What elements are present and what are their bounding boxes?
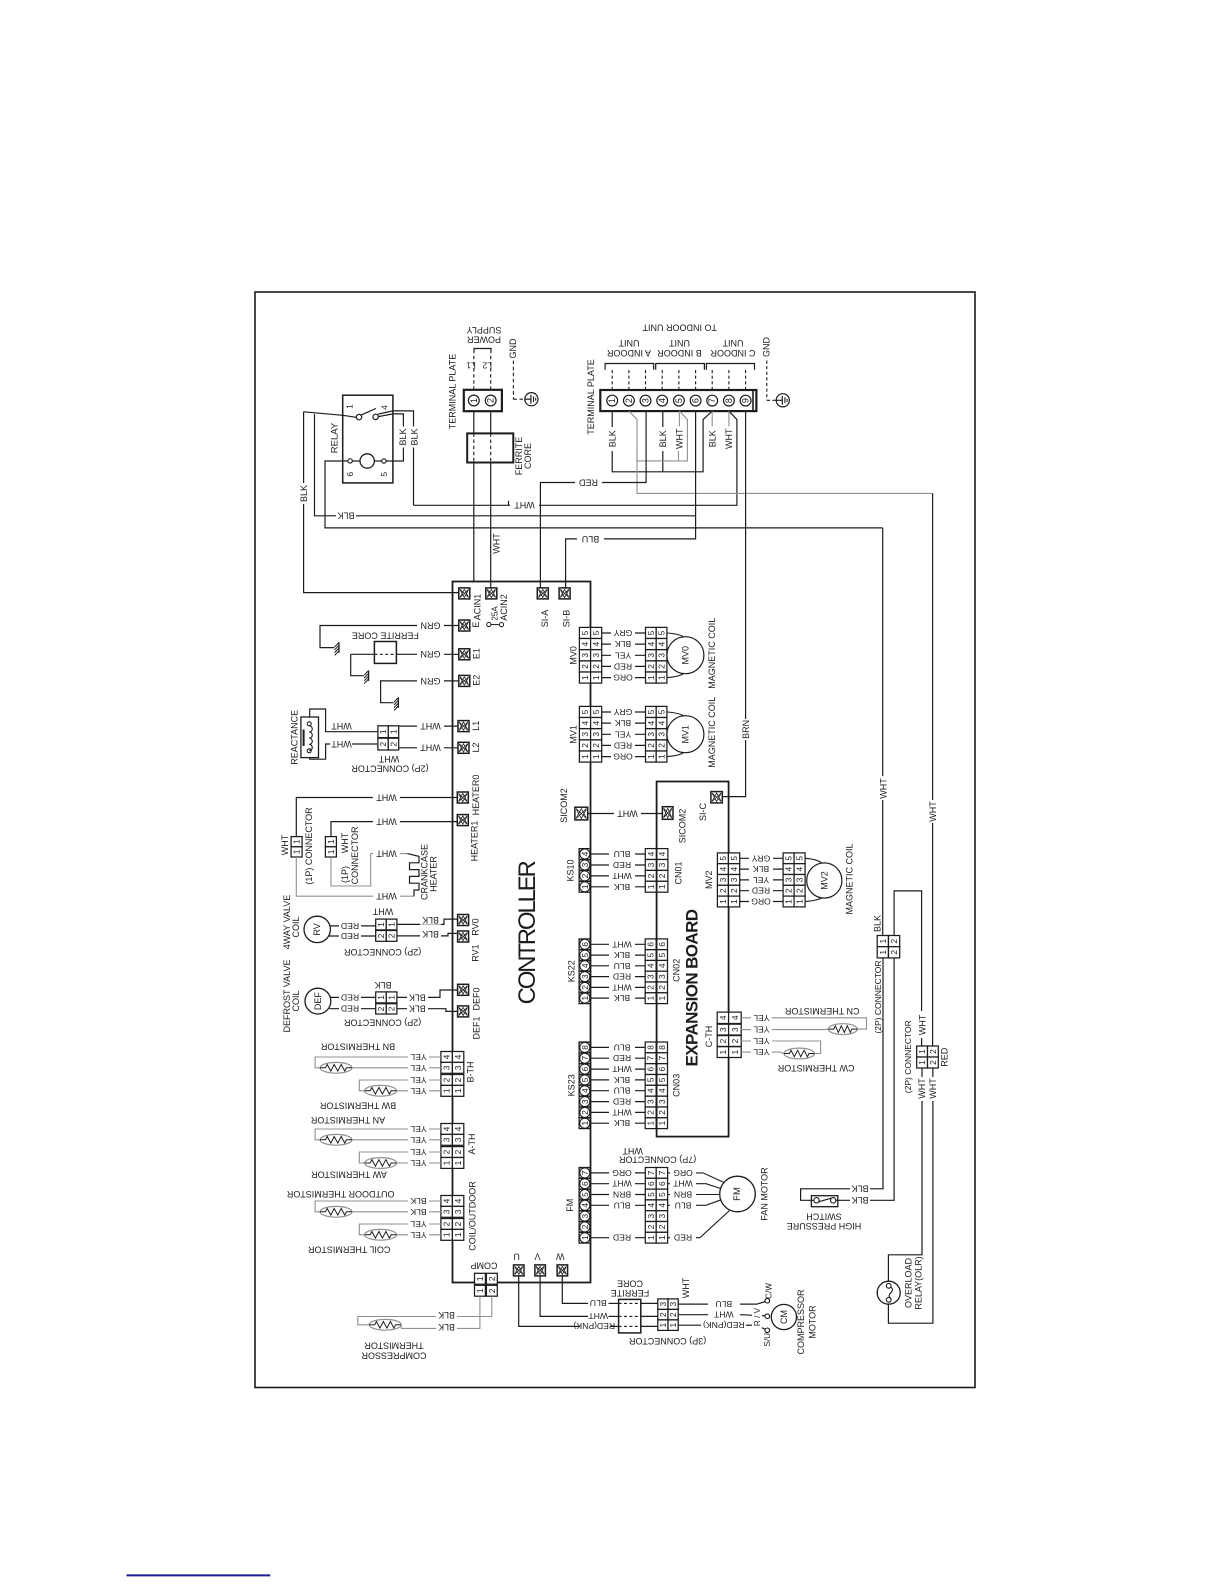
svg-text:3: 3: [442, 1137, 452, 1142]
connector DEF1: [458, 1006, 469, 1017]
svg-text:RED: RED: [613, 1053, 631, 1063]
svg-text:(1P): (1P): [340, 866, 350, 883]
svg-text:5: 5: [729, 856, 739, 861]
2P connector (DEF): [376, 992, 387, 1003]
relay switch blade: [361, 409, 376, 415]
svg-text:3: 3: [453, 1137, 463, 1142]
svg-text:BLK: BLK: [851, 1184, 868, 1194]
ground symbol E2: [397, 698, 399, 708]
svg-text:(1P) CONNECTOR: (1P) CONNECTOR: [304, 807, 314, 885]
svg-text:3: 3: [657, 862, 667, 867]
svg-text:4: 4: [580, 641, 590, 646]
svg-text:BLK: BLK: [410, 1196, 427, 1206]
svg-text:AN THERMISTOR: AN THERMISTOR: [310, 1115, 385, 1125]
svg-text:9: 9: [741, 398, 751, 403]
svg-text:UNIT: UNIT: [722, 338, 743, 348]
wire BLK 2P to DEF0: [397, 990, 458, 997]
connector HEATER1: [457, 815, 468, 826]
svg-text:3: 3: [795, 877, 805, 882]
svg-text:UNIT: UNIT: [618, 338, 639, 348]
svg-text:BLK: BLK: [337, 511, 354, 521]
svg-text:4: 4: [657, 851, 667, 856]
relay coil: [360, 454, 374, 468]
svg-text:W: W: [556, 1252, 565, 1262]
svg-text:POWER: POWER: [467, 335, 502, 345]
svg-text:2: 2: [486, 398, 496, 403]
wire BRN terminal9 to SI-C: [722, 411, 745, 796]
label WHT below 2P pin2: [928, 1077, 938, 1101]
svg-text:1: 1: [795, 899, 805, 904]
svg-text:2: 2: [387, 1006, 397, 1011]
svg-text:1: 1: [657, 675, 667, 680]
thermistor AN: [320, 1134, 352, 1145]
wire BW pin2 loop: [359, 1080, 441, 1091]
svg-text:1: 1: [646, 754, 656, 759]
svg-text:8: 8: [646, 1045, 656, 1050]
svg-text:5: 5: [646, 1192, 656, 1197]
svg-text:GRY: GRY: [613, 628, 632, 638]
svg-text:YEL: YEL: [410, 1158, 426, 1168]
svg-text:3: 3: [784, 877, 794, 882]
svg-text:WHT: WHT: [280, 834, 290, 855]
svg-text:YEL: YEL: [753, 1036, 769, 1046]
svg-text:DEF1: DEF1: [472, 1016, 482, 1039]
wire BLK 2P to RV1: [397, 933, 457, 936]
indoor terminal 8: [724, 395, 735, 406]
wire terminal2-5 junction continues: [636, 450, 638, 461]
indoor terminal 2: [624, 395, 635, 406]
svg-text:WHT: WHT: [928, 1078, 938, 1099]
svg-text:RED: RED: [341, 992, 359, 1002]
wire RED RV to 2P pin1: [330, 925, 375, 927]
wire BLK COMP left to thermistor: [401, 1296, 480, 1328]
wire relay pin4 WHT bus to terminal 8: [414, 411, 737, 505]
svg-text:1: 1: [718, 1049, 728, 1054]
svg-text:2: 2: [376, 933, 386, 938]
svg-text:BLK: BLK: [409, 1004, 426, 1014]
svg-text:1: 1: [580, 1235, 590, 1240]
svg-text:E1: E1: [471, 648, 481, 659]
wire AN pin4 loop: [315, 1129, 441, 1140]
2P connector (RV): [376, 919, 387, 930]
svg-text:RED: RED: [613, 860, 631, 870]
compressor thermistor: [369, 1319, 401, 1330]
high pressure switch: [811, 1196, 837, 1207]
svg-text:WHT: WHT: [917, 1078, 927, 1099]
svg-text:1: 1: [580, 884, 590, 889]
svg-text:RED(PNK): RED(PNK): [703, 1320, 745, 1330]
svg-text:CN03: CN03: [672, 1074, 682, 1097]
svg-text:KS23: KS23: [567, 1074, 577, 1096]
svg-text:HEATER1: HEATER1: [470, 821, 480, 862]
connector E1: [459, 649, 470, 660]
svg-text:C-TH: C-TH: [704, 1026, 714, 1048]
svg-text:4: 4: [646, 641, 656, 646]
svg-text:2: 2: [580, 1224, 590, 1229]
svg-text:BLK: BLK: [422, 929, 439, 939]
connector SI-C: [711, 792, 722, 803]
svg-text:WHT: WHT: [928, 801, 938, 822]
svg-text:WHT: WHT: [376, 849, 397, 859]
connector 7P (fan motor): [645, 1168, 656, 1179]
svg-text:GRY: GRY: [751, 853, 770, 863]
wire RED(PNK) U phase: [519, 1276, 579, 1327]
svg-text:WHT: WHT: [611, 1064, 631, 1074]
svg-text:RED: RED: [579, 477, 599, 487]
svg-text:DEF0: DEF0: [472, 987, 482, 1010]
ground symbol E: [338, 642, 340, 652]
svg-text:8: 8: [580, 1045, 590, 1050]
label WHT above lower 2P pin1: [917, 1011, 927, 1038]
svg-text:1: 1: [387, 922, 397, 927]
svg-text:WHT: WHT: [378, 754, 399, 764]
svg-text:CONTROLLER: CONTROLLER: [514, 861, 541, 1005]
svg-text:7: 7: [657, 1170, 667, 1175]
svg-text:5: 5: [591, 709, 601, 714]
footer link line: [127, 1574, 271, 1576]
svg-text:SI-B: SI-B: [562, 610, 572, 628]
svg-text:OVERLOAD: OVERLOAD: [904, 1257, 914, 1308]
svg-text:RED: RED: [752, 886, 770, 896]
svg-text:WHT: WHT: [372, 906, 393, 916]
svg-text:BLK: BLK: [410, 1207, 427, 1217]
wire WHT HEATER1 to 1P connector 2: [331, 822, 457, 837]
wire OUTDOOR pin4 loop: [315, 1201, 441, 1212]
thermistor AW: [365, 1158, 397, 1169]
svg-text:BRN: BRN: [674, 1190, 692, 1200]
svg-text:5: 5: [795, 856, 805, 861]
svg-text:BLK: BLK: [614, 1075, 631, 1085]
svg-text:FM: FM: [565, 1199, 575, 1212]
svg-text:4: 4: [795, 866, 805, 871]
wire BW pin1: [397, 1090, 441, 1092]
magnetic coil MV2: [807, 863, 842, 898]
svg-text:4: 4: [591, 641, 601, 646]
wires 7P to fan motor: [668, 1173, 724, 1183]
svg-text:5: 5: [580, 1077, 590, 1082]
svg-text:SICOM2: SICOM2: [559, 788, 569, 823]
svg-text:MAGNETIC COIL: MAGNETIC COIL: [707, 618, 717, 689]
svg-text:BLK: BLK: [614, 993, 631, 1003]
svg-text:RED: RED: [341, 1004, 359, 1014]
wire terminal5 jog down to T2 bus: [637, 411, 687, 461]
svg-text:2: 2: [442, 1221, 452, 1226]
svg-text:MAGNETIC COIL: MAGNETIC COIL: [844, 843, 854, 914]
svg-text:BLK: BLK: [614, 1118, 631, 1128]
svg-text:1: 1: [658, 1323, 668, 1328]
svg-text:R / V: R / V: [753, 1307, 762, 1326]
svg-text:1: 1: [292, 839, 302, 844]
2P connector (OLR): [917, 1046, 928, 1057]
svg-text:(2P) CONNECTOR: (2P) CONNECTOR: [351, 764, 429, 774]
svg-text:2: 2: [729, 888, 739, 893]
svg-text:2: 2: [624, 398, 634, 403]
wire BLK 2P pin1 to high pressure switch: [801, 958, 883, 1200]
svg-text:BLK: BLK: [299, 485, 309, 502]
power terminal 1: [468, 395, 479, 406]
svg-text:2: 2: [646, 664, 656, 669]
connector KS23: [579, 1042, 590, 1053]
svg-text:BLK: BLK: [398, 428, 408, 445]
svg-text:1: 1: [453, 1088, 463, 1093]
svg-text:2: 2: [718, 888, 728, 893]
wire COIL pin1: [397, 1234, 441, 1236]
svg-text:OUTDOOR THERMISTOR: OUTDOOR THERMISTOR: [286, 1189, 394, 1199]
svg-text:2: 2: [389, 741, 399, 746]
label BLK RV0: [420, 916, 441, 925]
svg-text:2: 2: [795, 888, 805, 893]
svg-text:1: 1: [607, 398, 617, 403]
svg-text:2: 2: [591, 664, 601, 669]
svg-text:4: 4: [646, 963, 656, 968]
wire AW pin1: [397, 1162, 441, 1164]
svg-text:WHT: WHT: [917, 1014, 927, 1035]
svg-text:1: 1: [389, 729, 399, 734]
svg-text:8: 8: [657, 1045, 667, 1050]
connector KS10: [579, 849, 590, 860]
svg-text:2: 2: [657, 985, 667, 990]
coil connector MV2: [783, 853, 794, 864]
svg-text:FERRITE CORE: FERRITE CORE: [352, 630, 419, 640]
svg-text:2: 2: [646, 743, 656, 748]
svg-text:RV: RV: [312, 923, 322, 935]
svg-text:BLK: BLK: [707, 430, 717, 447]
label WHT reactance top: [330, 722, 352, 731]
connector A-TH: [441, 1124, 453, 1135]
svg-text:ACIN2: ACIN2: [499, 594, 509, 621]
svg-text:YEL: YEL: [753, 1013, 769, 1023]
wire RED RV to 2P pin2: [329, 935, 376, 937]
connector B-TH: [441, 1052, 453, 1063]
dashed leads to indoor units: [611, 370, 613, 390]
svg-text:1: 1: [646, 1235, 656, 1240]
svg-text:1: 1: [878, 950, 888, 955]
svg-text:2: 2: [580, 1110, 590, 1115]
svg-text:1: 1: [657, 995, 667, 1000]
svg-text:7: 7: [580, 1170, 590, 1175]
svg-text:FM: FM: [732, 1187, 743, 1201]
connector MV1 (controller): [579, 706, 590, 717]
svg-text:YEL: YEL: [615, 729, 631, 739]
svg-text:(2P) CONNECTOR: (2P) CONNECTOR: [343, 947, 421, 957]
svg-text:V: V: [534, 1252, 540, 1262]
svg-text:BLK: BLK: [374, 980, 391, 990]
svg-text:WHT: WHT: [420, 743, 441, 753]
svg-text:6: 6: [580, 1181, 590, 1186]
svg-text:1: 1: [580, 995, 590, 1000]
wire BN pin3: [352, 1067, 441, 1069]
connector W: [557, 1265, 568, 1276]
svg-text:2: 2: [646, 985, 656, 990]
svg-text:4: 4: [657, 1203, 667, 1208]
wire C-TH pin1 to CW thermistor: [741, 1052, 784, 1053]
overload relay OLR: [877, 1281, 900, 1304]
svg-text:3: 3: [668, 1302, 678, 1307]
svg-text:5: 5: [591, 630, 601, 635]
thermistor BN: [320, 1062, 352, 1073]
svg-text:COIL: COIL: [291, 990, 301, 1011]
page frame / diagram border: [255, 292, 975, 1388]
wire C-TH pin3 to CN thermistor: [741, 1028, 828, 1031]
svg-text:6: 6: [580, 942, 590, 947]
wire WHT 2P to reactance bottom: [341, 743, 378, 745]
power supply bracket: [474, 349, 491, 353]
svg-text:GRY: GRY: [613, 707, 632, 717]
4-way valve coil RV: [304, 916, 330, 942]
svg-text:4: 4: [646, 1088, 656, 1093]
connector L2: [458, 742, 469, 753]
svg-text:3: 3: [646, 653, 656, 658]
svg-text:4: 4: [657, 641, 667, 646]
svg-text:2: 2: [657, 1224, 667, 1229]
svg-text:RED: RED: [613, 972, 631, 982]
svg-text:1: 1: [591, 675, 601, 680]
wire 2P pin2 up-over to lower 2P pin1: [894, 891, 922, 1046]
label WHT below 2P pin1: [917, 1077, 927, 1101]
svg-text:5: 5: [657, 952, 667, 957]
svg-text:HEATER: HEATER: [429, 856, 439, 892]
svg-text:8: 8: [724, 398, 734, 403]
svg-text:DEF: DEF: [313, 992, 323, 1011]
connector HEATER0: [457, 792, 468, 803]
svg-text:RED: RED: [614, 661, 632, 671]
svg-text:1: 1: [917, 1049, 927, 1054]
relay contact pins 1 and 4: [356, 414, 361, 419]
svg-text:2: 2: [453, 1077, 463, 1082]
svg-text:WHT: WHT: [878, 778, 888, 799]
svg-text:YEL: YEL: [410, 1124, 426, 1134]
svg-text:2: 2: [658, 1312, 668, 1317]
svg-text:1: 1: [657, 884, 667, 889]
connector ACIN2: [486, 588, 497, 599]
svg-text:WHT: WHT: [672, 1179, 692, 1189]
label GRN at E2: [417, 676, 444, 685]
svg-text:TERMINAL PLATE: TERMINAL PLATE: [586, 359, 596, 435]
svg-text:CORE: CORE: [523, 443, 533, 469]
svg-text:4: 4: [580, 1203, 590, 1208]
svg-text:L1: L1: [471, 721, 481, 731]
svg-text:7: 7: [580, 1056, 590, 1061]
svg-text:E: E: [471, 622, 481, 628]
label WHT crankcase top: [373, 849, 400, 858]
connector SICOM2 (controller): [575, 807, 588, 820]
svg-text:4: 4: [784, 866, 794, 871]
svg-text:7: 7: [646, 1056, 656, 1061]
label BRN on terminal9 wire: [741, 719, 751, 740]
svg-text:SUPPLY: SUPPLY: [467, 325, 502, 335]
connector COMP: [475, 1273, 486, 1284]
svg-text:BLU: BLU: [614, 1042, 631, 1052]
svg-text:RED: RED: [614, 740, 632, 750]
svg-text:3: 3: [646, 862, 656, 867]
svg-text:2: 2: [928, 1060, 938, 1065]
label BLK upper (switch): [850, 1184, 870, 1193]
svg-text:ORG: ORG: [612, 1168, 632, 1178]
wire BLK switch to 2P pin2: [836, 958, 894, 1200]
svg-text:WHT: WHT: [420, 721, 441, 731]
svg-text:ORG: ORG: [673, 1168, 693, 1178]
connector COIL/OUTDOOR: [441, 1196, 453, 1207]
ground symbol E1: [368, 671, 370, 681]
label WHT on x883 wire: [878, 776, 888, 800]
label WHT at L2: [417, 743, 444, 752]
svg-text:MV2: MV2: [704, 870, 714, 889]
svg-text:2: 2: [487, 1288, 497, 1293]
wire AN pin3: [352, 1139, 441, 1141]
coil connector MV0: [646, 627, 657, 638]
wire GRN E1 through ferrite to ground: [396, 653, 458, 655]
svg-text:YEL: YEL: [753, 1025, 769, 1035]
svg-text:5: 5: [646, 1077, 656, 1082]
dashed GND lead (indoor): [766, 361, 768, 401]
svg-text:WHT: WHT: [376, 792, 397, 802]
label WHT on relay-T8 bus: [510, 501, 539, 511]
label WHT at L1: [417, 722, 444, 731]
connector SI-A: [537, 588, 548, 599]
1P connector (heater0): [291, 837, 302, 847]
label BLK under terminal 7: [708, 427, 718, 451]
svg-text:FAN MOTOR: FAN MOTOR: [759, 1167, 769, 1221]
svg-text:5: 5: [674, 398, 684, 403]
svg-text:1: 1: [646, 1121, 656, 1126]
label BLK RV1: [420, 930, 441, 939]
label WHT at HEATER1: [373, 817, 400, 826]
label BLK DEF1: [407, 1004, 428, 1013]
svg-text:BLU: BLU: [675, 1200, 692, 1210]
svg-text:1: 1: [729, 899, 739, 904]
fuse 25A: [487, 622, 491, 626]
svg-text:WHT: WHT: [611, 1107, 631, 1117]
wire WHT 2P to reactance top: [341, 731, 378, 733]
wire C-TH pin2 loop to CW thermistor: [741, 1041, 820, 1054]
label BLK comp upper: [436, 1311, 457, 1320]
svg-text:BLK: BLK: [658, 430, 668, 447]
wire RED(PNK) 3P to compressor S/U: [678, 1324, 701, 1326]
svg-text:CN THERMISTOR: CN THERMISTOR: [784, 1006, 859, 1016]
svg-text:6: 6: [580, 1066, 590, 1071]
svg-text:AW THERMISTOR: AW THERMISTOR: [311, 1170, 387, 1180]
wires FM to expansion board: [590, 1172, 645, 1174]
svg-text:1: 1: [646, 675, 656, 680]
svg-text:WHT: WHT: [340, 832, 350, 853]
svg-text:COIL THERMISTOR: COIL THERMISTOR: [308, 1244, 391, 1254]
dashed GND lead (power): [512, 361, 514, 400]
ferrite core (E1): [374, 642, 396, 664]
label RED on SI-A wire: [575, 478, 602, 488]
wire BLK terminal1-4-7 bus: [612, 411, 712, 472]
svg-text:3: 3: [442, 1209, 452, 1214]
svg-text:GRN: GRN: [421, 676, 441, 686]
svg-text:7: 7: [646, 1170, 656, 1175]
svg-text:COIL/OUTDOOR: COIL/OUTDOOR: [468, 1181, 478, 1251]
svg-text:1: 1: [475, 1288, 485, 1293]
1P WHT connector (heater1): [325, 837, 336, 847]
svg-text:4: 4: [657, 1088, 667, 1093]
svg-text:BRN: BRN: [613, 1190, 631, 1200]
bracket B indoor unit: [656, 364, 705, 370]
svg-text:COIL: COIL: [291, 916, 301, 937]
svg-text:3: 3: [718, 877, 728, 882]
svg-text:5: 5: [580, 952, 590, 957]
svg-text:4: 4: [442, 1126, 452, 1131]
svg-text:CN02: CN02: [672, 959, 682, 982]
svg-text:4: 4: [730, 1015, 740, 1020]
3P connector: [658, 1299, 668, 1310]
wire relay pin6 bus drop to 2P connector pin1: [882, 528, 884, 936]
svg-text:KS10: KS10: [566, 859, 576, 881]
connector V: [535, 1265, 546, 1276]
svg-text:3: 3: [591, 732, 601, 737]
